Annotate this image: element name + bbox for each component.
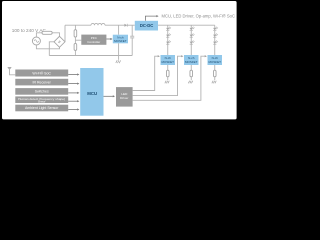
wire antenna to Wi-Fi SoC (10, 70, 16, 75)
wire drop string 1 (167, 25, 169, 28)
inductor L1 (91, 23, 105, 25)
wire drop string 2 (190, 25, 192, 28)
arrow Human detect sensor to MCU (68, 100, 77, 102)
LED string 3 (213, 27, 218, 55)
wire bridge right vertex up to DC bus (64, 25, 66, 42)
svg-text:Driver: Driver (120, 96, 128, 100)
antenna ANT1 (8, 67, 12, 69)
svg-text:IR Receiver: IR Receiver (33, 80, 52, 84)
wire inductor to diode (105, 24, 124, 26)
wire MOSFET source to rail (118, 43, 120, 55)
IR Receiver block (15, 79, 68, 86)
Human detect sensor block (15, 96, 68, 103)
Wi-Fi SoC block (15, 70, 68, 77)
Switches block (15, 88, 68, 95)
wire R1 to R2 (74, 37, 76, 43)
PFC controller U1 (81, 35, 106, 45)
wire DC-DC up annotation (145, 16, 156, 21)
wire divider tap to PFC (75, 39, 81, 41)
ground PFC stage (118, 56, 120, 60)
string MOSFET Q3 (184, 55, 199, 65)
wire driver to gate 2 (133, 56, 182, 95)
svg-text:Controller: Controller (87, 40, 100, 44)
arrow Switches to MCU (68, 92, 77, 94)
ground string 1 (165, 81, 169, 84)
sense resistor R5 (214, 65, 216, 70)
MCU U3 (80, 68, 103, 116)
arrow MCU to LED Driver (104, 95, 114, 97)
wire driver to gate 3 (133, 56, 205, 100)
svg-text:MOSFET: MOSFET (114, 39, 127, 43)
bridge rectifier D1 (54, 36, 65, 47)
Ambient Light Sensor block (15, 105, 68, 112)
string MOSFET Q2 (161, 55, 176, 65)
ground string 3 (212, 81, 216, 84)
wire driver to gate 1 (133, 56, 158, 90)
arrow PFC to MOSFET gate (106, 38, 110, 40)
LED supply rail (158, 24, 215, 26)
svg-text:Ambient Light Sensor: Ambient Light Sensor (25, 106, 59, 110)
svg-text:MCU, LED Driver, Op-amp, Wi-Fi: MCU, LED Driver, Op-amp, Wi-Fi® SoC (162, 13, 236, 19)
svg-text:Switches: Switches (35, 90, 49, 94)
ground string 2 (188, 81, 192, 84)
boost diode D2 (124, 24, 127, 27)
string MOSFET Q4 (208, 55, 223, 65)
LED string 1 (166, 27, 171, 55)
bus capacitor C1 (131, 25, 133, 36)
wire AC top to fuse (36, 33, 42, 37)
AC source V1 (32, 37, 40, 45)
wire bridge left vertex to neutral (49, 42, 54, 56)
sense resistor R3 (167, 65, 169, 70)
sense resistor R4 (190, 65, 192, 70)
DC bus rail (65, 24, 91, 26)
arrow Wi-Fi SoC to MCU (68, 74, 77, 76)
PFC MOSFET Q1 (113, 35, 128, 44)
wire fuse to bridge top (52, 33, 59, 37)
svg-text:MOSFET: MOSFET (209, 60, 222, 64)
svg-text:100 to 240 V AC: 100 to 240 V AC (12, 28, 47, 33)
wire drop string 3 (214, 25, 216, 28)
arrow Ambient Light Sensor to MCU (68, 109, 77, 111)
ground rail (49, 55, 132, 57)
arrow IR Receiver to MCU (68, 83, 77, 85)
svg-text:Sensor: Sensor (38, 100, 46, 103)
svg-text:MOSFET: MOSFET (185, 60, 198, 64)
resistor R2 (74, 43, 77, 50)
wire sense divider top (74, 25, 76, 30)
resistor R1 (74, 30, 77, 37)
background frame (0, 0, 240, 126)
svg-text:Wi-Fi® SoC: Wi-Fi® SoC (32, 71, 51, 75)
svg-text:DC-DC: DC-DC (140, 23, 154, 28)
svg-text:MOSFET: MOSFET (162, 60, 175, 64)
wire R2 bottom to rail (74, 50, 76, 55)
LED Driver U4 (116, 87, 133, 107)
wire diode to DC-DC (128, 24, 135, 26)
wire MOSFET drain (118, 25, 120, 35)
wire AC bottom to bridge bottom (36, 45, 59, 49)
DC-DC converter U2 (135, 21, 158, 31)
svg-text:MCU: MCU (87, 91, 97, 96)
LED string 2 (190, 27, 195, 55)
fuse F1 (42, 31, 52, 34)
